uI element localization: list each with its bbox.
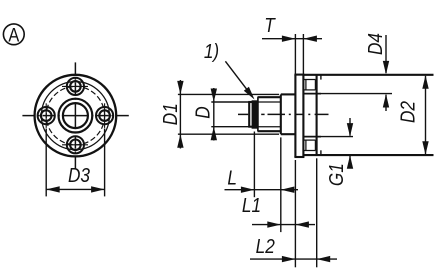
svg-text:1): 1)	[204, 41, 219, 64]
svg-text:T: T	[264, 15, 276, 38]
svg-text:D1: D1	[160, 103, 183, 125]
svg-text:D2: D2	[397, 101, 420, 123]
svg-text:D4: D4	[365, 33, 388, 55]
svg-text:L2: L2	[256, 235, 276, 258]
svg-text:A: A	[8, 24, 19, 46]
svg-text:L1: L1	[242, 195, 261, 218]
svg-text:G1: G1	[326, 163, 349, 186]
svg-text:L: L	[227, 167, 237, 190]
svg-text:D: D	[192, 106, 215, 119]
svg-text:D3: D3	[68, 165, 90, 188]
